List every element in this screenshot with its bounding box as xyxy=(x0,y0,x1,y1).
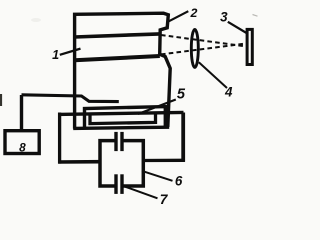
svg-text:4: 4 xyxy=(224,85,233,100)
svg-text:7: 7 xyxy=(160,192,169,205)
svg-text:1: 1 xyxy=(52,48,59,62)
svg-text:6: 6 xyxy=(175,173,183,188)
svg-text:2: 2 xyxy=(190,6,198,20)
svg-text:3: 3 xyxy=(220,9,228,24)
svg-text:8: 8 xyxy=(19,141,26,155)
svg-text:5: 5 xyxy=(177,86,186,102)
